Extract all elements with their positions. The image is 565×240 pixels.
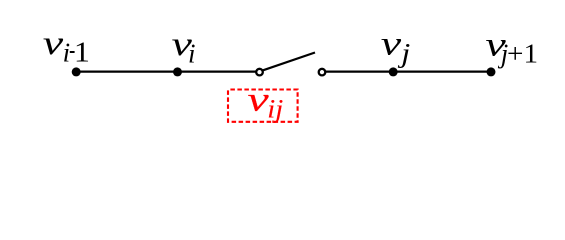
switch lever [263,53,315,71]
label v_i [172,25,196,69]
node v_i [173,67,182,76]
wire right segment [326,70,491,72]
svg-text:i: i [63,38,71,68]
svg-text:v: v [43,24,63,62]
label v_j+1 [485,25,538,69]
svg-text:+1: +1 [507,39,538,69]
svg-text:v: v [381,24,401,62]
svg-text:v: v [248,80,270,118]
svg-text:i: i [188,39,196,69]
label v_i-1 [43,24,90,68]
switch terminal left [256,69,263,76]
wire left segment [76,70,256,72]
svg-text:1: 1 [74,36,90,68]
switch terminal right [319,69,326,76]
label v_j [381,24,411,68]
svg-text:ij: ij [267,95,283,124]
node v_i-1 [72,67,81,76]
node v_j [389,67,398,76]
node v_j+1 [487,67,496,76]
label v_ij (red) [248,80,284,123]
switch name box (red dashed) [228,90,298,122]
